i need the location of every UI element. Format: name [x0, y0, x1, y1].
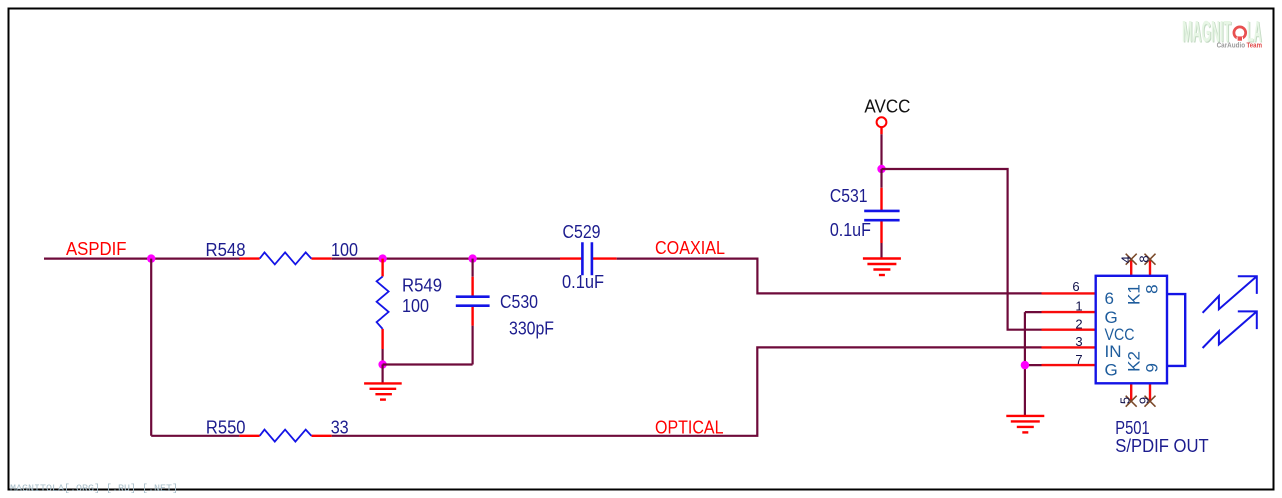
pin name 8 (rotated) [1143, 284, 1162, 293]
logo MAGNITOLA [1182, 16, 1263, 50]
optical emission arrow 2 [1203, 311, 1257, 348]
svg-text:5: 5 [1118, 397, 1133, 404]
svg-text:P501: P501 [1115, 418, 1149, 438]
pin name VCC [1105, 325, 1135, 344]
designator P501 [1115, 418, 1149, 438]
watermark MAGNITOLA.ORG [10, 483, 178, 495]
svg-text:6: 6 [1072, 279, 1079, 294]
svg-text:R549: R549 [402, 276, 442, 296]
ground symbol below connector [1006, 416, 1044, 433]
no-connect X on pin 8 [1145, 254, 1156, 265]
svg-text:1: 1 [1075, 298, 1082, 313]
svg-text:OPTICAL: OPTICAL [655, 418, 724, 438]
pin name G (pin 7) [1105, 361, 1118, 380]
pin number 2 [1075, 316, 1082, 331]
no-connect X on pin 5 [1126, 396, 1137, 407]
wire OPTICAL run to connector pin 3 [332, 347, 1042, 435]
wire COAXIAL run to connector pin 6 [617, 259, 1042, 294]
pin number 8 top (rotated) [1137, 255, 1152, 262]
svg-text:IN: IN [1105, 342, 1122, 361]
capacitor C531 [830, 169, 900, 259]
no-connect X on pin 9 [1145, 396, 1156, 407]
resistor R549 [377, 259, 442, 349]
pin number 4 (rotated) [1119, 256, 1134, 263]
junction node ASPDIF [147, 254, 155, 262]
connector P501 top pins 4 and 8 [1131, 259, 1150, 276]
svg-text:R548: R548 [206, 240, 246, 260]
svg-text:C531: C531 [830, 186, 868, 206]
net label OPTICAL [655, 418, 724, 438]
wire R549 bottom to ground junction [382, 349, 384, 365]
svg-text:2: 2 [1075, 316, 1082, 331]
power port AVCC [864, 97, 910, 135]
svg-text:330pF: 330pF [509, 319, 554, 339]
junction node AVCC [877, 165, 885, 173]
wire AVCC to connector pin 2 VCC [882, 169, 1042, 330]
svg-text:S/PDIF OUT: S/PDIF OUT [1115, 436, 1208, 456]
svg-text:K1: K1 [1124, 284, 1143, 305]
svg-text:8: 8 [1143, 284, 1162, 293]
wire AVCC vertical [880, 134, 882, 169]
svg-text:0.1uF: 0.1uF [830, 220, 871, 240]
svg-text:G: G [1105, 361, 1118, 380]
pin name IN [1105, 342, 1122, 361]
svg-text:ASPDIF: ASPDIF [66, 239, 127, 259]
svg-text:100: 100 [331, 240, 358, 260]
label S/PDIF OUT [1115, 436, 1208, 456]
svg-text:9: 9 [1137, 397, 1152, 404]
pin name 6 [1105, 289, 1114, 308]
svg-text:100: 100 [402, 296, 429, 316]
pin number 7 [1075, 352, 1082, 367]
svg-text:0.1uF: 0.1uF [562, 272, 604, 292]
capacitor C529 [560, 222, 617, 292]
pin number 9 bottom (rotated) [1137, 397, 1152, 404]
pin number 5 (rotated) [1118, 397, 1133, 404]
wire stub junction to ground [382, 365, 384, 384]
label K2 (rotated) [1124, 351, 1143, 372]
svg-text:K2: K2 [1124, 351, 1143, 372]
svg-text:C529: C529 [563, 222, 601, 242]
wire ASPDIF horizontal input [44, 258, 240, 260]
no-connect X on pin 4 [1126, 254, 1137, 265]
junction node at R549 top [378, 254, 386, 262]
pin number 1 [1075, 298, 1082, 313]
ground symbol below C531 [863, 259, 901, 276]
junction node R549 bottom [378, 360, 386, 368]
pin number 3 [1075, 334, 1082, 349]
wire vertical from ASPDIF node down to R550 row [150, 259, 152, 436]
svg-text:Team: Team [1247, 41, 1263, 50]
svg-text:8: 8 [1137, 255, 1152, 262]
svg-text:AVCC: AVCC [864, 97, 910, 117]
resistor R548 [206, 240, 359, 264]
svg-text:4: 4 [1119, 256, 1134, 263]
svg-text:COAXIAL: COAXIAL [655, 238, 725, 258]
label K1 (rotated) [1124, 284, 1143, 305]
optical emission arrow 1 [1203, 276, 1257, 313]
svg-text:6: 6 [1105, 289, 1114, 308]
pin name 9 (rotated) [1143, 363, 1162, 372]
connector P501 bottom pins 5 and 9 [1131, 383, 1150, 401]
svg-text:VCC: VCC [1105, 325, 1135, 344]
connector P501 pin leads left side [1042, 293, 1096, 365]
svg-text:7: 7 [1075, 352, 1082, 367]
wire between R548 and C529 [332, 258, 560, 260]
connector P501 body [1096, 276, 1186, 384]
pin number 6 [1072, 279, 1079, 294]
ground symbol below R549 [364, 383, 402, 399]
svg-text:3: 3 [1075, 334, 1082, 349]
net label COAXIAL [655, 238, 725, 258]
svg-text:MAGNITOLA[.ORG] [.RU] [.NET]: MAGNITOLA[.ORG] [.RU] [.NET] [10, 483, 178, 495]
capacitor C530 [456, 259, 554, 365]
svg-text:R550: R550 [206, 417, 246, 437]
wire from R549 bottom junction to C530 bottom [383, 363, 473, 365]
svg-text:33: 33 [331, 417, 349, 437]
svg-text:C530: C530 [500, 292, 538, 312]
net label ASPDIF [66, 239, 127, 259]
junction node at C530 top [468, 254, 476, 262]
svg-text:CarAudio: CarAudio [1217, 41, 1246, 50]
resistor R550 [151, 417, 349, 441]
pin name G (pin 1) [1105, 308, 1118, 327]
wire G net vertical (pins 1,7 to ground) [1025, 312, 1042, 416]
svg-text:9: 9 [1143, 363, 1162, 372]
junction node pin7 G [1021, 361, 1029, 369]
